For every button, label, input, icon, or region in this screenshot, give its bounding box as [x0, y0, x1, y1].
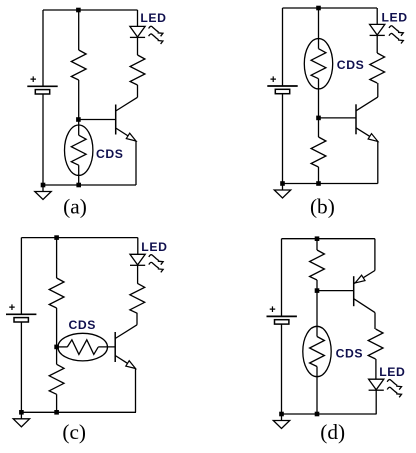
node: base junction (d) [315, 288, 320, 293]
wire: collector vertical (d) [374, 313, 376, 329]
resistor R8 (d) [310, 250, 325, 280]
wire: R6 top stub (c) [56, 347, 58, 364]
wire: LED anode (b) [376, 8, 378, 24]
ground (c) [13, 412, 29, 427]
wire: bottom rail (b) [283, 183, 378, 185]
battery B4 (d) [267, 304, 297, 324]
wire: base (a) [78, 119, 115, 121]
resistor R3 (b) [311, 137, 326, 167]
transistor Q2 (b) (NPN) [356, 97, 378, 141]
wire: top rail (b) [283, 7, 378, 9]
resistor R5 (c) [49, 278, 64, 308]
wire: battery bottom (c) [20, 322, 22, 412]
wire: battery top (a) [42, 10, 44, 86]
node: ground junction (b) [280, 181, 285, 186]
resistor R1 (a) [71, 50, 86, 80]
photoresistor CDS CDS1 (a) [65, 125, 93, 175]
wire: battery bottom (b) [282, 94, 284, 184]
node: R3 bottom junction (b) [316, 181, 321, 186]
ground (b) [274, 184, 290, 199]
LED D3 (c) diode symbol [130, 254, 145, 265]
battery B3 (c) [6, 302, 36, 322]
node: top junction (d) [315, 236, 320, 241]
wire: bottom rail (a) [43, 184, 136, 186]
wire: LED anode (a) [137, 10, 139, 26]
wire: R5 bottom stub (c) [56, 308, 58, 347]
svg-text:+: + [30, 74, 36, 86]
node: top junction (c) [54, 235, 59, 240]
wire: R1 bottom stub (a) [78, 80, 80, 120]
battery B2 (b) [267, 74, 297, 94]
node: CDS bottom junction (d) [315, 412, 320, 417]
node: ground junction (a) [41, 183, 46, 188]
svg-text:LED: LED [141, 240, 167, 254]
svg-text:(c): (c) [62, 420, 86, 444]
wire: base from CDS (c) [98, 346, 115, 348]
wire: top rail (a) [43, 9, 138, 11]
node: top junction (a) [76, 8, 81, 13]
svg-text:CDS: CDS [96, 147, 124, 161]
wire: top rail (c) [21, 237, 137, 239]
wire: bottom rail (c) [21, 411, 136, 413]
wire: collector vertical (a) [137, 85, 139, 97]
svg-text:+: + [269, 304, 275, 316]
wire: emitter vertical (b) [377, 141, 379, 183]
svg-text:(d): (d) [320, 420, 345, 444]
wire: collector vertical (c) [136, 313, 138, 325]
node: base junction (a) [76, 117, 81, 122]
wire: R3 top stub (b) [318, 118, 320, 137]
battery B1 (a) [27, 74, 57, 94]
node: R6 bottom junction (c) [54, 410, 59, 415]
svg-text:+: + [270, 74, 276, 86]
photoresistor CDS CDS4 (d) [303, 326, 331, 376]
wire: emitter vertical (d) [374, 239, 376, 271]
wire: R7 to LED (c) [137, 265, 139, 284]
wire: LED cathode (d) [375, 390, 377, 414]
wire: CDS left stub (c) [57, 346, 68, 348]
wire: battery top (b) [282, 8, 284, 86]
node: top junction (b) [316, 6, 321, 11]
LED D3 (c) light emission arrows [149, 255, 163, 273]
LED D2 (b) light emission arrows [389, 26, 403, 44]
svg-text:+: + [9, 302, 15, 314]
wire: LED anode (c) [137, 238, 139, 255]
wire: collector vertical (b) [377, 83, 379, 97]
wire: top rail (d) [282, 238, 375, 240]
svg-text:CDS: CDS [336, 347, 364, 361]
node: CDS bottom junction (a) [76, 183, 81, 188]
node: divider junction (c) [54, 345, 59, 350]
node: base junction (b) [316, 116, 321, 121]
resistor R7 (c) [130, 283, 145, 313]
ground (a) [35, 185, 51, 200]
ground (d) [273, 414, 289, 429]
wire: CDS bottom stub (b) [318, 79, 320, 118]
wire: CDS bottom stub (d) [316, 367, 318, 415]
wire: base (d) [317, 290, 354, 292]
wire: battery top (c) [20, 238, 22, 315]
wire: emitter vertical (a) [135, 141, 137, 185]
wire: CDS top stub (a) [78, 120, 80, 136]
svg-text:LED: LED [140, 11, 166, 25]
transistor Q3 (c) (NPN) [115, 325, 137, 369]
wire: R9 to LED (d) [375, 359, 377, 379]
wire: CDS top stub (b) [318, 8, 320, 49]
LED D1 (a) diode symbol [130, 26, 145, 37]
wire: R3 bottom stub (b) [318, 167, 320, 184]
wire: battery bottom (d) [281, 324, 283, 414]
wire: battery bottom (a) [42, 94, 44, 185]
resistor R2 (a) [130, 55, 145, 85]
LED D1 (a) light emission arrows [149, 26, 163, 44]
photoresistor CDS CDS3 (c) (horizontal) [58, 333, 108, 361]
wire: R8 top stub (d) [316, 239, 318, 250]
resistor R9 (d) [368, 329, 383, 359]
wire: CDS bottom stub (a) [78, 165, 80, 185]
wire: bottom rail (d) [282, 413, 377, 415]
transistor Q4 (d) (PNP) [354, 271, 375, 313]
wire: CDS top stub (d) [316, 291, 318, 337]
transistor Q1 (a) (NPN) [116, 97, 138, 141]
LED D2 (b) diode symbol [370, 24, 385, 35]
LED D4 (d) light emission arrows [387, 380, 401, 398]
wire: R6 bottom stub (c) [56, 394, 58, 412]
LED D4 (d) diode symbol [369, 379, 384, 390]
wire: base (b) [319, 117, 357, 119]
wire: emitter vertical (c) [135, 369, 137, 413]
svg-text:(b): (b) [310, 194, 335, 218]
wire: R1 top stub (a) [78, 10, 80, 50]
node: ground junction (c) [19, 410, 24, 415]
svg-text:(a): (a) [63, 194, 87, 218]
resistor R6 (c) [49, 364, 64, 394]
wire: R2 to LED (a) [137, 37, 139, 55]
svg-text:CDS: CDS [69, 318, 97, 332]
svg-text:LED: LED [382, 10, 408, 24]
wire: R4 to LED (b) [376, 35, 378, 53]
svg-text:LED: LED [379, 365, 405, 379]
node: ground junction (d) [279, 412, 284, 417]
photoresistor CDS CDS2 (b) [304, 39, 332, 89]
wire: R5 top stub (c) [56, 238, 58, 278]
wire: R8 bottom stub (d) [316, 280, 318, 291]
svg-text:CDS: CDS [337, 58, 365, 72]
resistor R4 (b) [370, 53, 385, 83]
wire: battery top (d) [281, 239, 283, 317]
